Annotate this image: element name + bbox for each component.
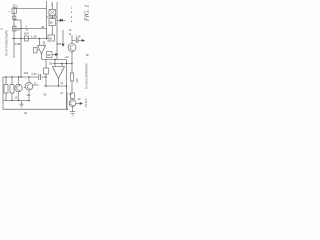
svg-text:10: 10: [69, 93, 72, 96]
transistor Q2: [25, 83, 33, 91]
wire T2 output: [58, 79, 60, 87]
arrow A1: [14, 43, 19, 45]
wire base link: [24, 87, 26, 89]
svg-text:05: 05: [49, 62, 52, 66]
capacitor C1 box on V1: [12, 8, 16, 14]
resistor R9: [71, 93, 75, 99]
wire IC stubs: [51, 2, 53, 35]
op-amp T2: [53, 67, 65, 79]
svg-text:26: 26: [50, 20, 54, 24]
svg-text:2.2K: 2.2K: [75, 35, 81, 39]
svg-text:95: 95: [44, 94, 47, 97]
svg-text:1.2K: 1.2K: [31, 34, 37, 38]
wire V6 with arrow: [62, 30, 64, 44]
wire Q4 out: [76, 103, 80, 105]
ground GL: [19, 101, 23, 108]
wire stub 104: [26, 29, 28, 32]
svg-text:2: 2: [25, 25, 27, 29]
svg-text:18: 18: [86, 53, 89, 57]
svg-text:P: P: [1, 27, 3, 31]
wire H4 bus: [12, 38, 47, 40]
wire Q4 emitter: [72, 107, 74, 112]
wire H inside block: [47, 16, 58, 18]
junction dots: [5, 28, 72, 110]
svg-text:+5: +5: [68, 29, 71, 32]
diode D1: [57, 19, 66, 22]
wire H8 rail86: [44, 85, 67, 87]
crystal X1: [49, 10, 56, 16]
svg-text:455: 455: [57, 42, 62, 46]
svg-text:12: 12: [60, 82, 63, 85]
wire cap H: [72, 40, 82, 42]
wire T1 inputs: [40, 39, 45, 46]
capacitor C2: [39, 74, 41, 80]
svg-text:46: 46: [24, 111, 27, 115]
op-amp T1: [38, 46, 46, 55]
arrow A4: [80, 103, 82, 105]
box 95: [47, 52, 53, 58]
svg-text:1: 1: [71, 7, 73, 10]
wire V8 upper: [71, 35, 73, 44]
wire H5 bus2: [42, 59, 67, 61]
wire H feedback: [53, 63, 73, 65]
wire H3: [14, 28, 47, 30]
resistor R1: [4, 85, 8, 94]
svg-text:2.2K: 2.2K: [31, 72, 37, 76]
wire V7 right mid vertical: [66, 60, 68, 109]
svg-text:TO CRT DRIVER AMPS: TO CRT DRIVER AMPS: [6, 30, 9, 56]
resistor R2b: [10, 85, 14, 94]
svg-text:+: +: [8, 9, 10, 13]
ground GR: [70, 112, 76, 115]
svg-text:124: 124: [24, 71, 29, 75]
transistor Q1: [15, 84, 22, 91]
wire V3L left drop: [2, 77, 4, 109]
svg-text:1K: 1K: [15, 96, 18, 99]
svg-text:2: 2: [71, 11, 73, 14]
wire H7 rail77: [3, 76, 46, 78]
svg-text:12: 12: [68, 33, 71, 36]
svg-text:4: 4: [71, 20, 73, 23]
svg-text:TO AFC: TO AFC: [85, 98, 88, 107]
svg-text:12: 12: [78, 97, 81, 101]
svg-text:17: 17: [15, 4, 18, 8]
wire T2 inputs: [55, 60, 62, 67]
svg-text:65: 65: [49, 36, 53, 40]
arrow A1 head: [19, 43, 22, 45]
svg-text:-: -: [54, 68, 55, 71]
svg-text:2.2K: 2.2K: [76, 78, 79, 83]
svg-text:104: 104: [24, 32, 29, 36]
block B2: [49, 19, 56, 26]
wire Q2c collector out: [33, 84, 39, 86]
resistor R2 on bus: [25, 36, 29, 41]
wire V1 left vertical: [13, 4, 15, 58]
wire H10 bottom rail: [3, 108, 68, 110]
wire H1 top rail: [14, 8, 47, 10]
svg-text:+5: +5: [60, 91, 64, 95]
wire H9 rail100: [3, 100, 30, 102]
wire V5: [56, 2, 58, 60]
arrow A2: [52, 54, 56, 56]
wire V8 mid: [71, 52, 73, 94]
transistor Q3: [68, 44, 76, 52]
svg-text:10: 10: [17, 27, 20, 31]
wire T1 output: [41, 54, 43, 60]
svg-text:3: 3: [71, 16, 73, 19]
svg-text:TO SYNC SEPARATOR: TO SYNC SEPARATOR: [86, 63, 89, 89]
resistor R5: [44, 68, 49, 74]
svg-text:45: 45: [41, 25, 44, 29]
transistor Q4: [69, 100, 76, 107]
box BL: [34, 48, 38, 54]
wire V x46: [45, 60, 47, 87]
wire V2: [20, 20, 22, 77]
capacitor C3: [76, 38, 78, 43]
wire H2: [14, 19, 21, 21]
block B3 65: [48, 35, 55, 41]
svg-text:2: 2: [51, 3, 53, 7]
svg-text:FIG. 1: FIG. 1: [84, 5, 91, 23]
svg-text:+12: +12: [64, 55, 69, 59]
arrow A3: [82, 40, 84, 42]
resistor R8: [70, 73, 73, 81]
wire V x67 drop: [66, 92, 68, 109]
wire V4: [46, 1, 48, 39]
svg-text:12K: 12K: [26, 94, 31, 97]
resistor K3 on V1: [13, 26, 16, 31]
resistor K2 on V1: [13, 16, 16, 20]
svg-text:95: 95: [47, 53, 51, 57]
